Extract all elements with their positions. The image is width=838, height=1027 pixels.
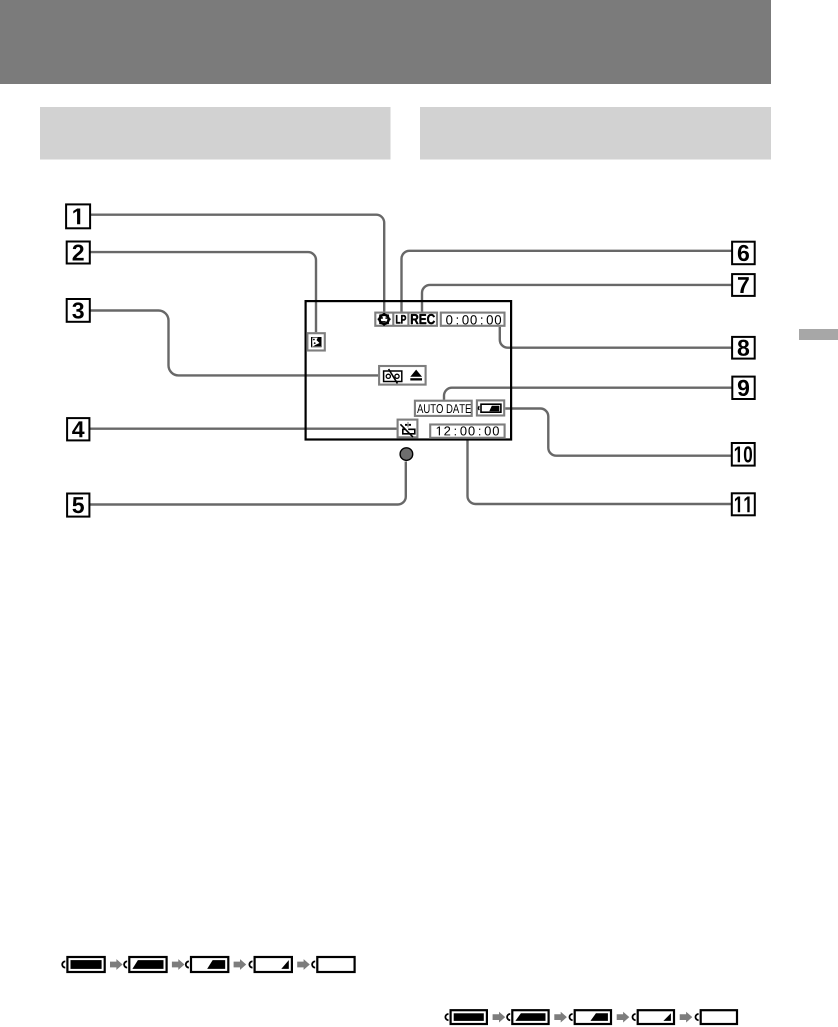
battery c5 empty xyxy=(695,1010,737,1024)
REC label xyxy=(411,314,435,324)
battery c4 low xyxy=(632,1010,674,1024)
leader line 6 xyxy=(402,251,733,312)
top banner xyxy=(0,0,771,84)
battery c3 half xyxy=(569,1010,611,1024)
right page tab xyxy=(799,329,838,340)
arrow d4 xyxy=(680,1012,693,1023)
label box 6 xyxy=(732,242,755,265)
arrow a4 xyxy=(297,959,310,970)
leader line 1 xyxy=(90,215,384,312)
cassette-with-slash icon xyxy=(384,369,402,383)
label box 2 xyxy=(67,242,90,264)
battery b2 three-quarters xyxy=(124,957,167,972)
AUTO DATE box xyxy=(415,401,472,416)
eject indicator box xyxy=(379,366,426,385)
right heading bar xyxy=(420,107,771,160)
label box 10 xyxy=(732,443,755,466)
label box 5 xyxy=(67,494,89,517)
LP label xyxy=(396,315,406,323)
label box 7 xyxy=(732,274,755,296)
battery c2 three-quarters xyxy=(507,1010,548,1024)
battery b3 half xyxy=(186,957,229,972)
clock box 12:00:00 xyxy=(430,425,504,438)
arrow a2 xyxy=(172,959,185,970)
battery c1 full xyxy=(445,1010,487,1024)
arrow a1 xyxy=(110,959,123,970)
leader line 10 xyxy=(505,409,732,456)
leader line 5 xyxy=(89,462,405,505)
reel icon xyxy=(378,313,391,326)
battery b5 empty xyxy=(312,957,354,972)
battery sequence row 1 xyxy=(62,957,354,972)
leader line 3 xyxy=(90,311,378,376)
label box 8 xyxy=(732,337,755,359)
screen outline xyxy=(306,301,512,439)
left heading bar xyxy=(40,107,391,160)
label box 1 xyxy=(66,204,90,228)
leader line 7 xyxy=(422,285,732,312)
battery b4 low xyxy=(249,957,292,972)
leader line 4 xyxy=(89,428,396,430)
arrow d2 xyxy=(554,1012,567,1023)
leader line 2 xyxy=(90,252,316,332)
battery indicator box xyxy=(477,400,504,415)
battery b1 full xyxy=(62,957,105,972)
label box 11 xyxy=(732,493,755,515)
leader line 11 xyxy=(468,438,732,504)
tape counter box 0:00:00 xyxy=(441,313,505,326)
label box 3 xyxy=(67,299,90,322)
label box 4 xyxy=(67,418,89,440)
indicator row box (reel/LP/REC) xyxy=(375,312,437,326)
arrow a3 xyxy=(234,959,247,970)
record lamp xyxy=(400,448,413,461)
photo mode icon box xyxy=(307,333,324,350)
leader line 9 xyxy=(444,388,732,400)
arrow d1 xyxy=(493,1012,506,1023)
leader line 8 xyxy=(500,327,732,348)
label box 9 xyxy=(732,377,754,399)
arrow d3 xyxy=(617,1012,630,1023)
battery sequence row 2 xyxy=(445,1010,737,1024)
no-tape (slashed) icon box xyxy=(398,420,418,438)
eject symbol xyxy=(410,370,422,381)
